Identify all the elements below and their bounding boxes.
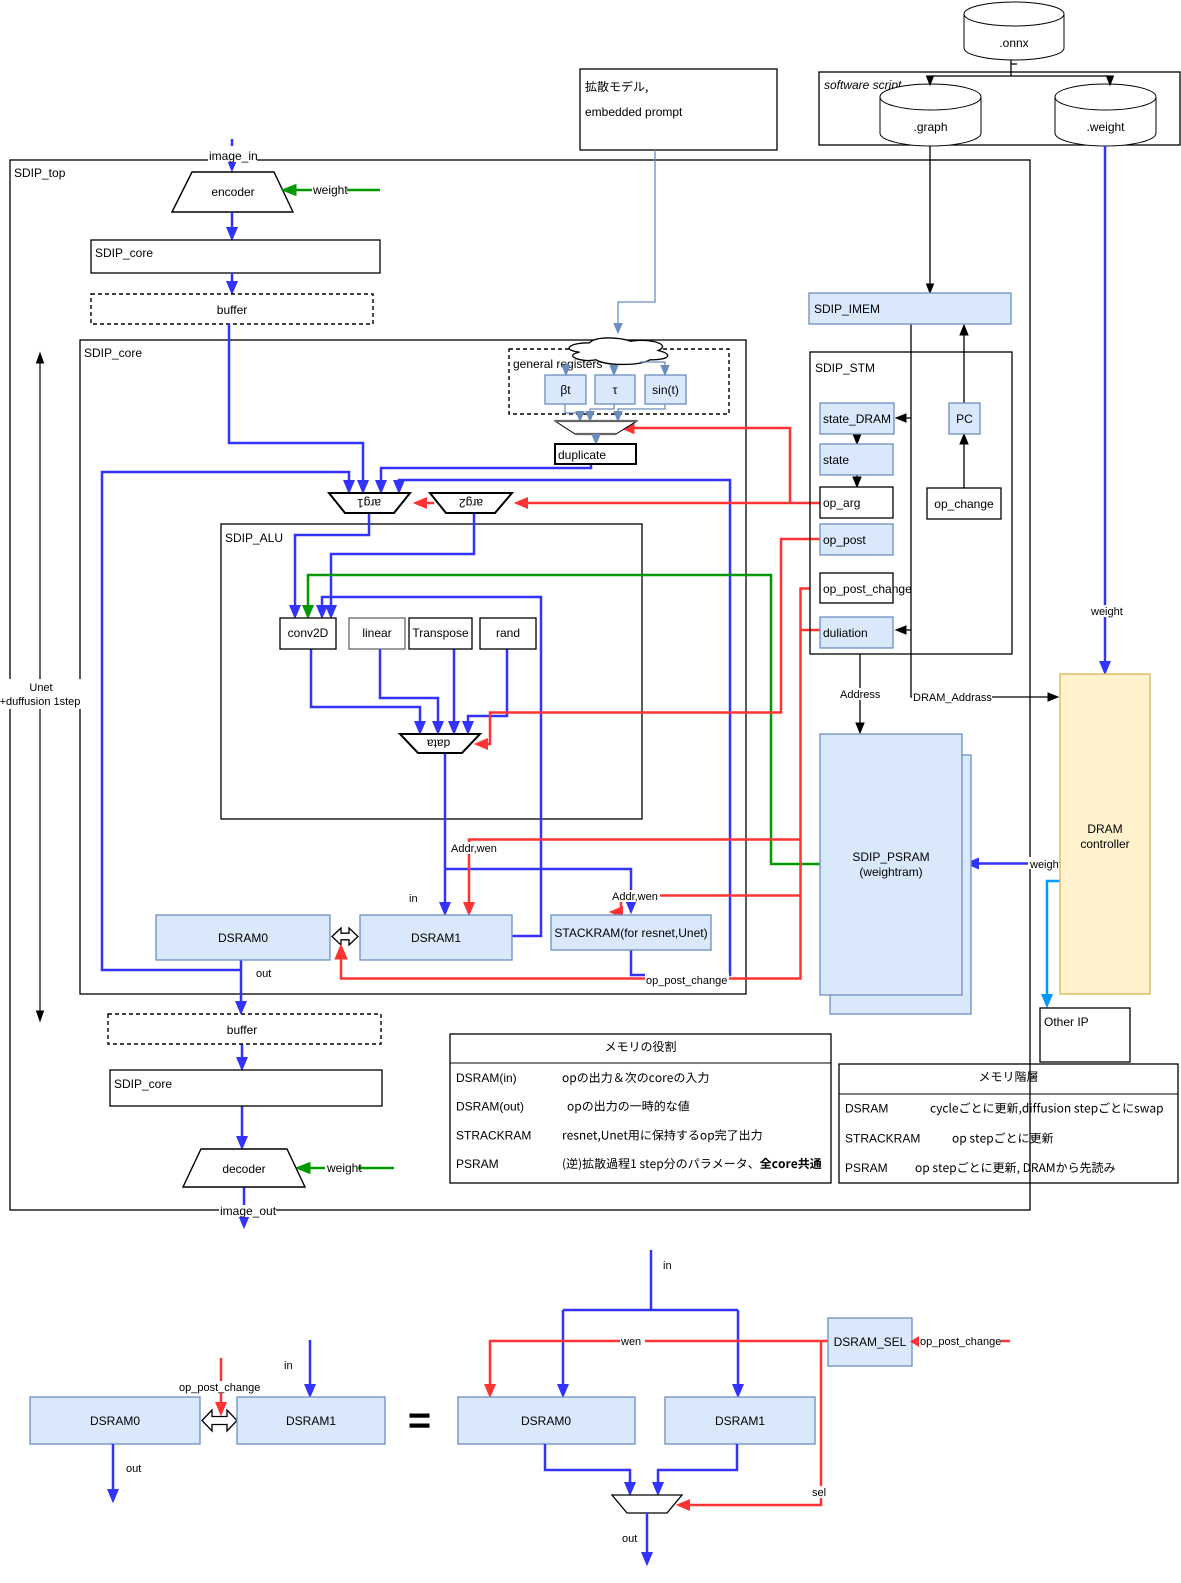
wire DSRAM0 out down to buffer bbox=[240, 960, 243, 1007]
node Transpose bbox=[409, 618, 472, 649]
wire duplicate to arg1 bbox=[381, 464, 591, 486]
svg-text:SDIP_ALU: SDIP_ALU bbox=[225, 531, 283, 545]
svg-text:SDIP_core: SDIP_core bbox=[84, 346, 142, 360]
wire SDIP_core lower to decoder bbox=[241, 1106, 244, 1142]
node rand bbox=[480, 618, 536, 649]
arrow Unet+diffusion 1step span bbox=[39, 360, 41, 1014]
svg-text:state: state bbox=[823, 453, 849, 467]
svg-text:DSRAM(out): DSRAM(out) bbox=[456, 1100, 524, 1114]
wire conv2D to data bbox=[311, 649, 420, 727]
svg-text:SDIP_core: SDIP_core bbox=[95, 246, 153, 260]
svg-text:op_change: op_change bbox=[934, 497, 994, 511]
node encoder trapezoid bbox=[172, 172, 293, 212]
wire .onnx to .graph and .weight bbox=[930, 60, 1110, 79]
wire op_post_change to DSRAM swap (red) bbox=[220, 1358, 223, 1403]
svg-text:SDIP_core: SDIP_core bbox=[114, 1077, 172, 1091]
wire op_arg to arg2/arg1 and general mux (red) bbox=[521, 502, 820, 505]
svg-text:Transpose: Transpose bbox=[412, 626, 469, 640]
label Addr,wen (DSRAM1) bbox=[448, 842, 498, 854]
svg-text:DRAM_Addrass: DRAM_Addrass bbox=[913, 692, 992, 704]
mux data trapezoid bbox=[400, 734, 480, 753]
wire out (bottom left) bbox=[112, 1444, 115, 1495]
wire bt to register mux bbox=[565, 404, 580, 415]
wire SDIP_IMEM to state_DRAM, duliation, DRAM_Addrass bbox=[911, 324, 1051, 697]
label weight (decoder) bbox=[325, 1162, 358, 1174]
node conv2D bbox=[280, 618, 336, 649]
svg-text:wen: wen bbox=[620, 1336, 641, 1348]
wire rand to data bbox=[468, 649, 507, 727]
wire prompt to cloud (slate) bbox=[618, 150, 655, 325]
svg-text:DSRAM(in): DSRAM(in) bbox=[456, 1071, 517, 1085]
svg-text:DSRAM1: DSRAM1 bbox=[286, 1414, 336, 1428]
node op_post_change bbox=[820, 573, 893, 603]
mux arg2 trapezoid bbox=[430, 493, 512, 513]
wire linear to data bbox=[380, 649, 438, 727]
svg-text:STRACKRAM: STRACKRAM bbox=[456, 1129, 531, 1143]
svg-text:DRAM: DRAM bbox=[1087, 822, 1122, 836]
label Addr,wen (STACKRAM) bbox=[610, 890, 660, 902]
wire DRAM controller to Other IP (light blue) bbox=[1047, 881, 1060, 999]
label weight (.weight wire) bbox=[1090, 605, 1124, 617]
node duplicate bbox=[555, 444, 636, 464]
svg-text:arg2: arg2 bbox=[459, 496, 483, 510]
svg-text:βt: βt bbox=[560, 383, 571, 397]
wire .weight to DRAM controller (blue) bbox=[1104, 146, 1107, 665]
node SDIP_core lower bbox=[110, 1070, 382, 1106]
svg-text:STACKRAM(for resnet,Unet): STACKRAM(for resnet,Unet) bbox=[554, 926, 707, 940]
svg-text:sin(t): sin(t) bbox=[652, 383, 679, 397]
svg-text:DSRAM0: DSRAM0 bbox=[521, 1414, 571, 1428]
svg-text:weight: weight bbox=[326, 1161, 362, 1175]
wire op_post_change to DSRAM_SEL (red) bbox=[911, 1336, 920, 1347]
svg-text:STRACKRAM: STRACKRAM bbox=[845, 1132, 920, 1146]
label Unet +duffusion 1step bbox=[0, 679, 82, 709]
arrowhead red into DSRAM1 bottom bbox=[335, 945, 347, 959]
svg-text:conv2D: conv2D bbox=[288, 626, 329, 640]
svg-text:+duffusion 1step: +duffusion 1step bbox=[0, 696, 80, 708]
svg-text:Addr,wen: Addr,wen bbox=[451, 843, 497, 855]
wire sin(t) to register mux bbox=[618, 404, 665, 415]
node DSRAM0 bottom left bbox=[30, 1397, 200, 1444]
node op_change bbox=[927, 488, 1001, 519]
label DRAM_Addrass bbox=[912, 691, 992, 703]
svg-text:image_in: image_in bbox=[209, 149, 258, 163]
label image_in bbox=[208, 150, 257, 162]
wire op_change to PC bbox=[963, 440, 965, 488]
container software script bbox=[819, 72, 1180, 145]
svg-text:DSRAM_SEL: DSRAM_SEL bbox=[834, 1335, 907, 1349]
node SDIP_core upper bbox=[91, 240, 380, 273]
svg-text:SDIP_IMEM: SDIP_IMEM bbox=[814, 302, 880, 316]
svg-text:weight: weight bbox=[1090, 606, 1123, 618]
svg-text:τ: τ bbox=[613, 383, 618, 397]
wire cloud to bt bbox=[565, 362, 567, 368]
node DSRAM1 bottom left bbox=[237, 1397, 385, 1444]
wire buffer to SDIP_core lower bbox=[241, 1044, 244, 1063]
svg-text:op_post_change: op_post_change bbox=[646, 975, 727, 987]
swap arrow DSRAM0-DSRAM1 bbox=[332, 928, 358, 945]
mux arg1 trapezoid bbox=[329, 493, 410, 513]
svg-text:embedded prompt: embedded prompt bbox=[585, 105, 683, 119]
svg-text:SDIP_top: SDIP_top bbox=[14, 166, 66, 180]
label equals sign bbox=[410, 1414, 430, 1418]
label op_post_change (bottom red wire) bbox=[645, 973, 729, 986]
svg-text:out: out bbox=[256, 968, 271, 980]
wire weight DRAM to SDIP_PSRAM (blue) bbox=[973, 862, 1060, 865]
svg-text:data: data bbox=[426, 737, 450, 751]
svg-text:.weight: .weight bbox=[1086, 120, 1125, 134]
wire .graph to SDIP_IMEM bbox=[929, 146, 931, 286]
cylinder .graph bbox=[880, 84, 981, 146]
node STACKRAM bbox=[551, 915, 711, 950]
container SDIP_top bbox=[10, 160, 1030, 1210]
wire Transpose to data bbox=[453, 649, 456, 727]
svg-text:rand: rand bbox=[496, 626, 520, 640]
label Address bbox=[838, 688, 882, 700]
svg-text:decoder: decoder bbox=[222, 1162, 265, 1176]
wire DSRAM0 to mux (bottom right) bbox=[545, 1444, 630, 1488]
label weight (encoder) bbox=[312, 184, 347, 196]
svg-text:duplicate: duplicate bbox=[558, 448, 606, 462]
wire image_in (dashed blue) bbox=[231, 139, 234, 160]
wire SDIP_core to buffer bbox=[231, 273, 234, 287]
wire in split (bottom right) bbox=[563, 1250, 738, 1390]
label wen bbox=[620, 1335, 645, 1347]
cloud general registers bbox=[569, 338, 668, 365]
wire state to op_arg bbox=[856, 475, 858, 481]
wire state_DRAM to state bbox=[856, 434, 858, 438]
svg-text:PC: PC bbox=[956, 412, 973, 426]
wire op_post to data (red) bbox=[488, 539, 820, 744]
table memory hierarchy bbox=[839, 1064, 1178, 1183]
container SDIP_STM bbox=[810, 352, 1012, 654]
wire Address to SDIP_PSRAM bbox=[859, 654, 861, 725]
wire out (bottom right) bbox=[646, 1513, 649, 1553]
svg-text:Unet: Unet bbox=[29, 682, 52, 694]
svg-text:PSRAM: PSRAM bbox=[456, 1157, 499, 1171]
wire in to DSRAM1 (bottom left) bbox=[309, 1340, 312, 1390]
svg-text:image_out: image_out bbox=[220, 1204, 277, 1218]
wire wen (red, bottom right) bbox=[490, 1341, 828, 1390]
wire arg2 to conv2D bbox=[331, 513, 474, 611]
node DSRAM1 bbox=[360, 915, 512, 960]
wire cloud to tau bbox=[613, 366, 615, 368]
wire arg1 to conv2D bbox=[295, 513, 369, 611]
node SDIP_PSRAM front bbox=[820, 734, 962, 995]
wire op_post_change net (red) bbox=[341, 589, 810, 979]
wire sel DSRAM_SEL to mux (red) bbox=[690, 1341, 821, 1505]
node Other IP bbox=[1040, 1008, 1130, 1062]
box register sin(t) bbox=[645, 375, 686, 404]
wire red branch to duliation bbox=[801, 629, 821, 632]
svg-text:op_post_change: op_post_change bbox=[823, 582, 912, 596]
box register bt bbox=[545, 375, 586, 404]
svg-text:DSRAM1: DSRAM1 bbox=[715, 1414, 765, 1428]
svg-text:general registers: general registers bbox=[513, 357, 602, 371]
node DRAM controller bbox=[1060, 674, 1150, 994]
container SDIP_ALU bbox=[221, 524, 642, 819]
node state bbox=[820, 444, 893, 475]
node op_arg bbox=[820, 487, 893, 518]
node SDIP_PSRAM back bbox=[830, 755, 971, 1014]
svg-text:buffer: buffer bbox=[227, 1023, 257, 1037]
svg-text:.graph: .graph bbox=[913, 120, 947, 134]
mux bottom trapezoid bbox=[612, 1495, 682, 1513]
node decoder trapezoid bbox=[183, 1149, 305, 1187]
node buffer lower (dashed) bbox=[108, 1014, 381, 1044]
svg-text:op_post_change: op_post_change bbox=[920, 1336, 1001, 1348]
wire weight to encoder (green) bbox=[296, 189, 380, 192]
svg-text:duliation: duliation bbox=[823, 626, 868, 640]
svg-text:linear: linear bbox=[362, 626, 391, 640]
wire PC to SDIP_IMEM bbox=[963, 331, 965, 403]
svg-text:state_DRAM: state_DRAM bbox=[823, 412, 891, 426]
node DSRAM0 bbox=[156, 915, 330, 960]
cylinder .onnx bbox=[964, 2, 1064, 60]
svg-text:Addr,wen: Addr,wen bbox=[612, 891, 658, 903]
svg-text:in: in bbox=[663, 1260, 672, 1272]
mux general registers trapezoid bbox=[555, 421, 637, 434]
cylinder .weight bbox=[1055, 84, 1156, 146]
wire red branch Addr,wen to STACKRAM bbox=[618, 896, 801, 913]
swap arrow bottom bbox=[202, 1410, 237, 1431]
wire encoder to SDIP_core bbox=[231, 212, 234, 233]
wire DSRAM1 to mux (bottom right) bbox=[658, 1444, 737, 1488]
wire weight to decoder (green) bbox=[310, 1167, 394, 1170]
svg-text:weight: weight bbox=[1029, 859, 1062, 871]
wire PSRAM weight to conv2D (green) bbox=[308, 575, 820, 864]
label op_post_change (bottom right) bbox=[919, 1334, 1001, 1347]
container general registers (dashed) bbox=[509, 349, 729, 414]
node DSRAM_SEL bbox=[828, 1318, 912, 1366]
svg-text:(weightram): (weightram) bbox=[859, 865, 922, 879]
wire buffer to arg1 bbox=[229, 324, 363, 486]
svg-text:PSRAM: PSRAM bbox=[845, 1161, 888, 1175]
node DSRAM1 bottom right bbox=[665, 1397, 815, 1444]
svg-text:op_post_change: op_post_change bbox=[179, 1382, 260, 1394]
wire cloud to sin(t) bbox=[640, 362, 665, 368]
node linear bbox=[349, 618, 405, 649]
box diffusion model / embedded prompt bbox=[580, 69, 777, 150]
node duliation bbox=[820, 617, 893, 648]
wire DSRAM0 out loop to arg1 bbox=[102, 472, 349, 970]
svg-text:arg1: arg1 bbox=[357, 496, 381, 510]
svg-text:Other IP: Other IP bbox=[1044, 1015, 1089, 1029]
node PC bbox=[949, 403, 980, 434]
node SDIP_IMEM bbox=[809, 293, 1011, 324]
svg-text:DSRAM: DSRAM bbox=[845, 1102, 888, 1116]
wire data to DSRAM1 in bbox=[444, 753, 447, 908]
node op_post bbox=[820, 524, 893, 555]
table memory roles bbox=[450, 1034, 831, 1183]
svg-text:SDIP_STM: SDIP_STM bbox=[815, 361, 875, 375]
label op_post_change (bottom left) bbox=[178, 1381, 262, 1393]
label sel bbox=[810, 1486, 830, 1498]
svg-text:controller: controller bbox=[1080, 837, 1129, 851]
wire data branch to STACKRAM bbox=[445, 869, 631, 906]
svg-text:in: in bbox=[284, 1360, 293, 1372]
svg-text:encoder: encoder bbox=[211, 185, 254, 199]
svg-text:weight: weight bbox=[312, 183, 348, 197]
box register tau bbox=[595, 375, 635, 404]
svg-text:DSRAM1: DSRAM1 bbox=[411, 931, 461, 945]
node DSRAM0 bottom right bbox=[458, 1397, 635, 1444]
svg-text:sel: sel bbox=[812, 1487, 826, 1499]
wire tau to register mux bbox=[590, 404, 614, 415]
svg-text:.onnx: .onnx bbox=[999, 36, 1028, 50]
wire STACKRAM loop to arg1 bbox=[399, 480, 730, 975]
label weight (DRAM to PSRAM) bbox=[1028, 857, 1060, 869]
svg-text:DSRAM0: DSRAM0 bbox=[218, 931, 268, 945]
svg-text:buffer: buffer bbox=[217, 303, 247, 317]
svg-text:in: in bbox=[409, 893, 418, 905]
wire register mux to duplicate bbox=[595, 434, 597, 438]
svg-text:DSRAM0: DSRAM0 bbox=[90, 1414, 140, 1428]
svg-text:Address: Address bbox=[840, 689, 881, 701]
wire DSRAM1 to conv2D bbox=[322, 597, 541, 936]
node state_DRAM bbox=[820, 403, 894, 434]
svg-text:op_arg: op_arg bbox=[823, 496, 860, 510]
svg-text:out: out bbox=[126, 1463, 141, 1475]
container SDIP_core inner bbox=[80, 340, 746, 994]
wire red branch Addr,wen to DSRAM1 bbox=[469, 840, 801, 909]
svg-text:op_post: op_post bbox=[823, 533, 866, 547]
node buffer upper (dashed) bbox=[91, 294, 373, 324]
svg-text:SDIP_PSRAM: SDIP_PSRAM bbox=[852, 850, 929, 864]
wire decoder to image_out bbox=[243, 1187, 246, 1221]
label image_out bbox=[219, 1205, 276, 1217]
svg-text:out: out bbox=[622, 1533, 637, 1545]
